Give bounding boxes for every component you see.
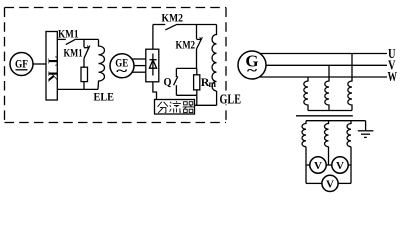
contact KM1 aux (tick, arrow, blade) xyxy=(84,47,89,49)
ground xyxy=(358,130,374,132)
voltmeter V3 xyxy=(322,175,338,191)
bus V xyxy=(266,64,387,66)
wire V1-V2 junction xyxy=(326,164,332,166)
svg-text:~: ~ xyxy=(247,64,258,79)
inductor ELE (exciter field winding) xyxy=(98,39,105,89)
wire TK top output xyxy=(57,38,66,40)
switch Q blade xyxy=(174,76,178,85)
PT secondary winding 2 xyxy=(325,121,329,147)
wire primary common xyxy=(308,110,352,112)
wire rectifier top lead xyxy=(152,25,154,50)
svg-text:GLE: GLE xyxy=(220,93,242,108)
bus U xyxy=(260,53,387,55)
wire Rm bottom lead xyxy=(196,90,198,95)
wire secondary 2 down to V1-V2 node xyxy=(328,147,330,165)
wire Q/Rm bottom rail xyxy=(176,94,196,96)
char 器 xyxy=(183,102,194,113)
wire GE phase a xyxy=(132,58,146,60)
svg-text:W: W xyxy=(388,70,398,85)
rectifier box xyxy=(146,49,159,82)
wire GLE coil bottom lead xyxy=(216,91,218,105)
rheostat TK xyxy=(46,32,57,101)
PT core line xyxy=(296,115,353,117)
inductor GLE (generator field winding) xyxy=(212,25,216,91)
PT secondary winding 3 xyxy=(347,121,351,147)
wire GE phase b xyxy=(134,65,146,67)
diode symbol xyxy=(152,54,154,76)
wire Q branch bottom lead xyxy=(175,85,177,95)
PT secondary winding 1 xyxy=(302,121,306,147)
wire shunt box to GLE coil bottom xyxy=(195,104,217,106)
wire secondary 1 down xyxy=(305,147,307,184)
svg-text:V: V xyxy=(314,160,322,172)
wire GE phase c xyxy=(132,71,146,73)
svg-text:KM1: KM1 xyxy=(58,26,79,40)
wire branch down to KM2 aux contact xyxy=(196,25,198,39)
svg-text:KM1: KM1 xyxy=(64,45,83,59)
contact KM2 aux (tick, arrow, blade) xyxy=(197,38,202,40)
svg-text:V: V xyxy=(336,160,344,172)
switch Q branch top lead xyxy=(175,68,177,77)
wire rectifier bottom lead to shunt xyxy=(153,82,157,100)
voltmeter V1 xyxy=(310,157,326,173)
resistor R (discharge) xyxy=(81,67,88,81)
generator GF (pilot exciter) xyxy=(10,53,33,76)
wire branch down to KM1 aux contact xyxy=(83,39,85,47)
dashed enclosure border xyxy=(5,7,227,9)
wire after KM1 to coil corner xyxy=(76,38,99,40)
wire Rm top lead xyxy=(196,68,198,74)
svg-text:ELE: ELE xyxy=(94,89,115,103)
GF underline (DC mark) xyxy=(16,69,28,71)
wire secondary 3 down xyxy=(350,147,352,184)
PT primary winding 2 xyxy=(325,65,329,110)
svg-text:KM2: KM2 xyxy=(162,11,184,25)
switch KM2 main contact blade xyxy=(165,24,177,30)
shunt box (分流器) xyxy=(155,100,195,115)
wire secondary common to ground xyxy=(306,120,366,122)
svg-text:T: T xyxy=(45,56,60,66)
PT primary winding 1 xyxy=(304,77,308,111)
wire GF to TK xyxy=(33,63,46,65)
bus W xyxy=(260,76,387,78)
wire stub V2 to secondary 3 xyxy=(348,164,351,166)
wire contact to resistor xyxy=(83,58,85,67)
wire stub to V1 xyxy=(306,164,310,166)
svg-text:Q: Q xyxy=(164,75,172,89)
generator G (main) xyxy=(238,51,266,79)
svg-text:KM2: KM2 xyxy=(176,37,196,51)
svg-text:~: ~ xyxy=(116,64,128,79)
wire resistor to bottom rail xyxy=(83,82,85,90)
wire Q/Rm top rail xyxy=(176,67,196,69)
label GLE xyxy=(219,94,241,105)
char 流 xyxy=(170,101,182,113)
svg-text:GF: GF xyxy=(15,57,28,71)
wire KM2 top rail right xyxy=(177,24,217,26)
switch KM1 main contact blade xyxy=(66,39,76,44)
generator GE (AC exciter) xyxy=(110,54,134,78)
wire bottom left to V3 xyxy=(306,182,322,184)
wire rail down to shunt wire xyxy=(196,95,198,105)
svg-text:V: V xyxy=(326,178,334,190)
wire KM2 top rail left xyxy=(153,24,165,26)
wire contact to rail xyxy=(196,49,198,68)
char 分 xyxy=(158,102,168,113)
wire bottom rail xyxy=(57,88,98,90)
wire bottom right to V3 xyxy=(338,182,351,184)
voltmeter V2 xyxy=(332,157,348,173)
resistor Rm xyxy=(194,75,200,90)
svg-text:K: K xyxy=(45,71,60,82)
PT primary winding 3 xyxy=(348,54,352,111)
